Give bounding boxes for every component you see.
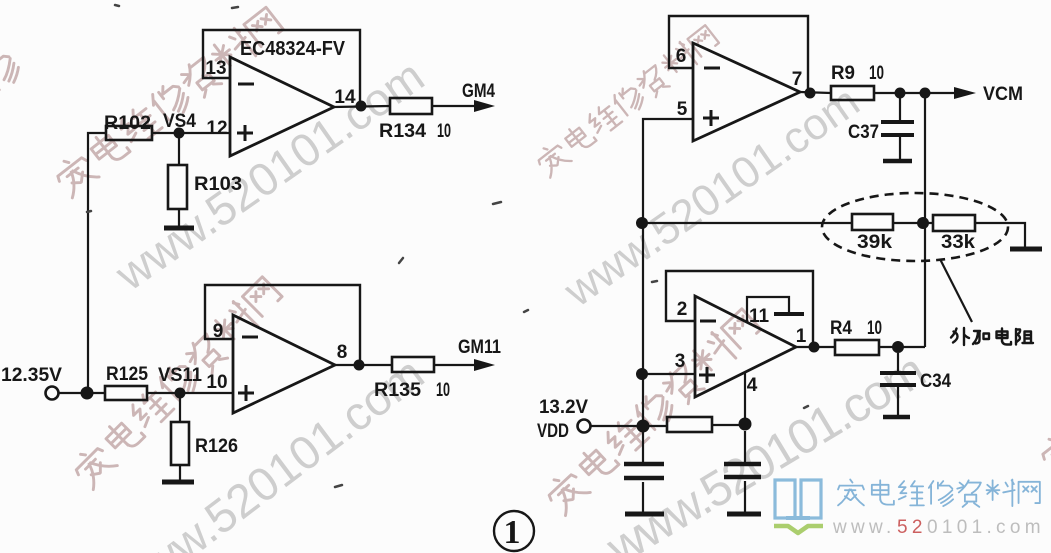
wire resistor to pin4 node	[712, 424, 745, 426]
node C37 top	[895, 88, 906, 99]
wire R103 to ground	[178, 209, 180, 228]
wire left cap to ground	[642, 482, 644, 512]
wire VCM branch down to 39k 33k junction and R4 output	[924, 98, 926, 347]
op-amp U1A label EC48324-FV	[240, 38, 346, 60]
wire feedback loop U1A pin14 to pin13	[203, 30, 360, 104]
resistor 39k	[852, 214, 893, 230]
svg-text:12: 12	[206, 118, 227, 139]
pin 4 label	[747, 375, 758, 396]
op-amp U2B plus sign pin 3	[699, 367, 715, 383]
node between 39k and 33k	[917, 217, 929, 229]
ground below left cap	[625, 512, 664, 517]
wire VS4 to R103	[178, 138, 180, 165]
label VCM	[983, 84, 1023, 105]
pin 12 label	[206, 118, 227, 139]
svg-text:2: 2	[677, 299, 688, 320]
wire U2A output to R9	[800, 92, 831, 93]
op-amp U2A plus sign pin 5	[703, 110, 719, 126]
wire pin4 node down to right cap	[744, 431, 746, 464]
node VS4	[174, 128, 185, 139]
wire pin 4 down	[744, 372, 746, 425]
svg-text:3: 3	[675, 351, 686, 372]
pin 3 label	[675, 351, 686, 372]
svg-text:39k: 39k	[857, 232, 892, 253]
wire left rail from R102 down to 12.35V input	[88, 133, 106, 393]
svg-text:R103: R103	[194, 174, 242, 195]
label R135 10	[374, 380, 450, 401]
dashed ellipse around 39k 33k	[822, 193, 1008, 261]
label R4 10	[830, 318, 882, 339]
resistor VDD series	[667, 417, 712, 432]
ground below R103	[164, 226, 194, 231]
wire C34 lead bottom	[897, 387, 899, 415]
wire C37 lead bottom	[899, 137, 901, 160]
op-amp U2B minus sign pin 2	[700, 320, 716, 323]
svg-text:6: 6	[676, 46, 687, 67]
op-amp U1A minus sign pin 13	[238, 83, 254, 86]
svg-text:52: 52	[897, 517, 927, 538]
svg-text:7: 7	[792, 69, 803, 90]
wire U1A output	[334, 106, 390, 107]
wire 12.35V to R125	[59, 392, 105, 394]
pin 14 label	[334, 87, 356, 108]
resistor R102	[106, 126, 152, 140]
figure number 1 circled	[494, 511, 534, 551]
wire feedback loop U2A pin7 to pin6	[669, 16, 808, 91]
svg-text:GM4: GM4	[462, 81, 495, 102]
svg-text:10: 10	[867, 318, 882, 339]
svg-text:5: 5	[677, 99, 688, 120]
pin 6 label	[676, 46, 687, 67]
wire R126 to ground	[179, 465, 181, 482]
node rail junction at 12.35V	[81, 387, 94, 400]
label R9 10	[831, 63, 884, 84]
svg-text:www.: www.	[832, 517, 896, 538]
label R134 10	[379, 121, 451, 142]
node output U1B pin 8	[354, 360, 365, 371]
op-amp U1A plus sign pin 12	[237, 125, 253, 141]
svg-text:13: 13	[205, 58, 226, 79]
resistor R4	[835, 340, 879, 355]
label VS4	[163, 111, 196, 132]
wire U2A pin5 input from rail	[643, 119, 693, 425]
capacitor C34	[880, 373, 916, 385]
svg-text:10: 10	[206, 372, 227, 393]
capacitor left decoupling	[624, 464, 664, 478]
svg-text:13.2V: 13.2V	[539, 397, 588, 418]
wire 39k to 33k	[893, 222, 933, 224]
resistor R103	[168, 165, 187, 209]
wire rail to 39k	[643, 222, 852, 224]
pin 2 label	[677, 299, 688, 320]
resistor R134	[390, 98, 432, 114]
pin 1 label	[796, 326, 807, 347]
wire right cap to ground	[744, 481, 746, 512]
label 13.2V	[539, 397, 588, 418]
label VDD	[537, 421, 569, 442]
label VS11	[158, 365, 202, 386]
label C37	[848, 122, 879, 143]
wire R102 to op-amp U1A pin12	[152, 132, 230, 134]
speck marks from scan	[87, 5, 808, 487]
svg-text:R134: R134	[379, 121, 426, 142]
svg-text:R125: R125	[106, 364, 148, 385]
wire feedback loop U1B pin8 to pin9	[205, 285, 360, 363]
label R126	[195, 436, 238, 457]
label 12.35V	[1, 365, 62, 386]
node rail at pin3	[636, 368, 648, 380]
svg-text:EC48324-FV: EC48324-FV	[240, 38, 346, 60]
wire VS11 to R126	[179, 398, 181, 422]
svg-text:GM11: GM11	[458, 337, 501, 358]
node rail at VDD	[637, 420, 650, 433]
arrow VCM	[954, 87, 976, 99]
wire R125 to op-amp U1B pin10	[147, 392, 233, 394]
arrow GM4	[474, 100, 495, 112]
op-amp U1B minus sign pin 9	[242, 336, 258, 339]
node rail at 39k row	[636, 217, 648, 229]
wire VDD to rail	[591, 425, 667, 427]
wire 33k to ground	[975, 223, 1025, 247]
op-amp U1B plus sign pin 10	[238, 385, 254, 401]
wire U2B output to R4	[796, 346, 835, 348]
op-amp U2A minus sign pin 6	[704, 67, 720, 70]
node VS11	[175, 388, 186, 399]
op-amp U1A EC48324-FV	[230, 57, 334, 156]
svg-text:C37: C37	[848, 122, 879, 143]
pin 5 label	[677, 99, 688, 120]
op-amp U2A	[693, 43, 800, 141]
op-amp U2B	[695, 296, 796, 397]
wire U2B pin3 input from rail	[643, 373, 695, 375]
label R125	[106, 364, 148, 385]
pin 8 label	[337, 342, 348, 363]
label 33k	[941, 232, 975, 253]
svg-text:VS11: VS11	[158, 365, 202, 386]
resistor R135	[392, 357, 434, 372]
capacitor C37	[881, 122, 914, 135]
wire U1B output	[335, 364, 392, 366]
svg-text:14: 14	[334, 87, 356, 108]
node pin4 junction	[739, 418, 752, 431]
ground below C37	[883, 159, 912, 164]
svg-text:1: 1	[796, 326, 807, 347]
resistor R125	[105, 386, 147, 400]
svg-text:R9: R9	[831, 63, 855, 84]
resistor R9	[831, 86, 874, 100]
label GM11	[458, 337, 501, 358]
wire R135 to GM11 arrow	[434, 364, 478, 366]
wire R9 to VCM arrow	[874, 92, 958, 94]
svg-text:33k: 33k	[941, 232, 975, 253]
svg-text:8: 8	[337, 342, 348, 363]
arrow GM11	[474, 359, 495, 371]
node output U1A pin 14	[356, 101, 367, 112]
terminal VDD input	[578, 420, 591, 433]
label C34	[920, 371, 951, 392]
pin 11 label	[749, 306, 770, 327]
wire R134 to GM4 arrow	[432, 105, 478, 107]
svg-text:0101.com: 0101.com	[927, 517, 1045, 538]
ground right of 33k	[1010, 247, 1042, 252]
ground below R126	[162, 480, 194, 485]
svg-text:11: 11	[749, 306, 770, 327]
op-amp U1B	[233, 315, 335, 413]
svg-text:R135: R135	[374, 380, 421, 401]
figure number 1 text	[504, 514, 521, 551]
svg-text:R102: R102	[104, 113, 151, 134]
svg-text:C34: C34	[920, 371, 951, 392]
capacitor right decoupling	[724, 464, 761, 477]
label wai jia dian zu (external resistor)	[951, 328, 1033, 345]
node VCM branch	[920, 88, 931, 99]
label 39k	[857, 232, 892, 253]
pin 10 label	[206, 372, 227, 393]
label R103	[194, 174, 242, 195]
wire C34 lead top	[897, 353, 899, 373]
ground below right cap	[727, 512, 761, 517]
resistor R126	[171, 422, 189, 465]
svg-text:VDD: VDD	[537, 421, 569, 442]
svg-text:10: 10	[869, 63, 884, 84]
pin 7 label	[792, 69, 803, 90]
pin 13 label	[205, 58, 226, 79]
svg-text:R126: R126	[195, 436, 238, 457]
wire pin 11 stub with bar	[747, 297, 789, 322]
svg-text:10: 10	[436, 380, 450, 401]
pointer line from ellipse to label	[940, 259, 972, 322]
svg-text:10: 10	[437, 121, 451, 142]
terminal 12.35V input	[46, 387, 59, 400]
label R102	[104, 113, 151, 134]
node R4 output	[892, 341, 904, 353]
svg-text:1: 1	[504, 514, 521, 551]
node output U2A pin 7	[805, 88, 816, 99]
wire C37 lead top	[899, 98, 901, 122]
wire rail down to left cap	[642, 432, 644, 464]
wire R4 to branch	[879, 346, 925, 348]
svg-text:4: 4	[747, 375, 758, 396]
svg-text:12.35V: 12.35V	[1, 365, 62, 386]
resistor 33k	[933, 215, 975, 231]
svg-text:VCM: VCM	[983, 84, 1023, 105]
node output U2B pin 1	[809, 342, 820, 353]
pin 9 label	[213, 321, 224, 342]
ground below C34	[883, 415, 910, 420]
bar terminator pin 11	[774, 312, 804, 316]
label GM4	[462, 81, 495, 102]
svg-text:R4: R4	[830, 318, 852, 339]
wire feedback loop U2B pin1 to pin2	[666, 271, 813, 345]
